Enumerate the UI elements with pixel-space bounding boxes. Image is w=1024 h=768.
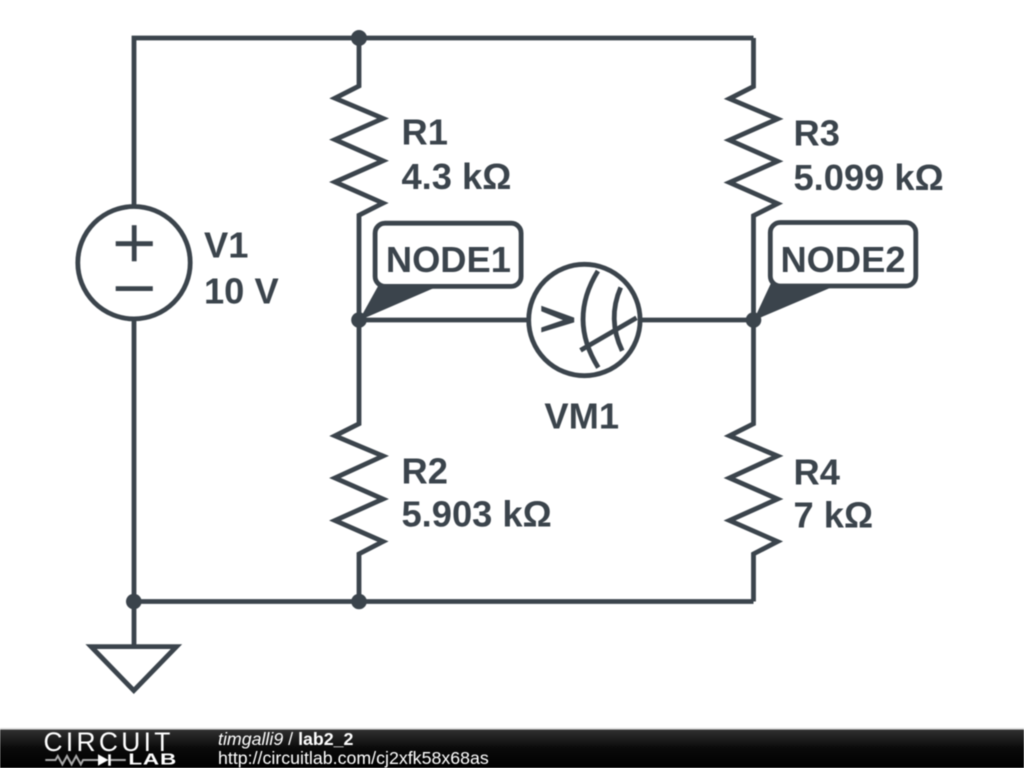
- svg-text:R1: R1: [402, 112, 448, 153]
- svg-text:R3: R3: [794, 113, 840, 154]
- svg-text:NODE2: NODE2: [780, 239, 905, 280]
- svg-text:LAB: LAB: [128, 752, 177, 768]
- svg-text:http://circuitlab.com/cj2xfk58: http://circuitlab.com/cj2xfk58x68as: [218, 748, 489, 768]
- svg-text:10 V: 10 V: [204, 270, 279, 311]
- svg-text:V1: V1: [204, 224, 248, 265]
- svg-text:7 kΩ: 7 kΩ: [794, 495, 874, 536]
- svg-text:timgalli9 / lab2_2: timgalli9 / lab2_2: [218, 729, 354, 749]
- svg-text:5.903 kΩ: 5.903 kΩ: [402, 494, 552, 535]
- svg-text:VM1: VM1: [544, 395, 619, 436]
- svg-text:5.099 kΩ: 5.099 kΩ: [794, 157, 944, 198]
- svg-text:R2: R2: [402, 451, 448, 492]
- svg-text:R4: R4: [794, 452, 840, 493]
- svg-text:4.3 kΩ: 4.3 kΩ: [402, 156, 512, 197]
- svg-text:NODE1: NODE1: [386, 239, 511, 280]
